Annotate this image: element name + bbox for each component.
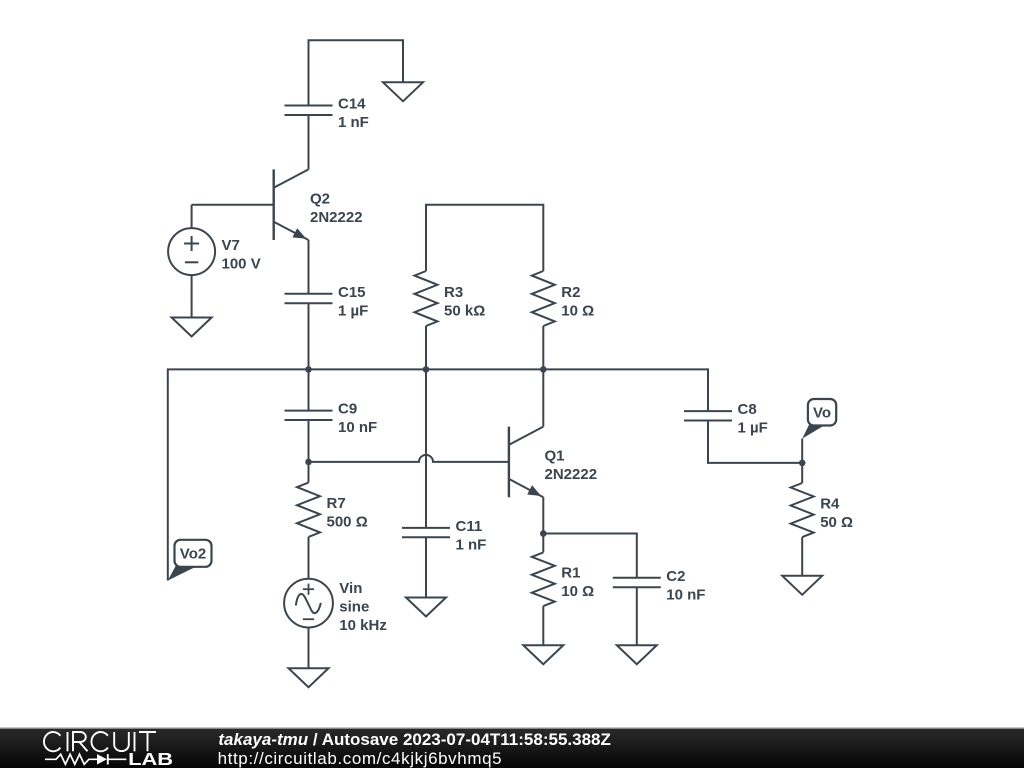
svg-text:10 nF: 10 nF [666,586,705,603]
svg-text:2N2222: 2N2222 [310,209,363,226]
svg-text:C15: C15 [338,284,366,301]
svg-text:C8: C8 [738,401,757,418]
svg-text:10 Ω: 10 Ω [561,583,594,600]
svg-text:10 kHz: 10 kHz [339,617,387,634]
svg-text:takaya-tmu / Autosave 2023-07-: takaya-tmu / Autosave 2023-07-04T11:58:5… [218,730,610,749]
svg-text:1 nF: 1 nF [456,536,487,553]
svg-text:10 nF: 10 nF [338,419,377,436]
svg-text:50 kΩ: 50 kΩ [444,302,485,319]
svg-text:50 Ω: 50 Ω [820,514,853,531]
svg-text:LAB: LAB [128,749,173,768]
svg-text:Q1: Q1 [545,448,565,465]
svg-text:1 nF: 1 nF [338,114,369,131]
svg-text:10 Ω: 10 Ω [561,302,594,319]
svg-text:500 Ω: 500 Ω [327,514,368,531]
svg-text:V7: V7 [222,237,240,254]
svg-text:R1: R1 [561,565,580,582]
svg-text:1 µF: 1 µF [738,420,768,437]
svg-text:C2: C2 [666,568,685,585]
svg-text:C11: C11 [456,518,483,535]
svg-text:sine: sine [339,598,369,615]
svg-text:R2: R2 [561,284,580,301]
svg-text:R3: R3 [444,284,463,301]
svg-text:Vin: Vin [339,580,362,597]
svg-text:R7: R7 [327,495,346,512]
svg-text:Vo: Vo [813,405,831,422]
svg-text:Q2: Q2 [310,190,330,207]
svg-text:http://circuitlab.com/c4kjkj6b: http://circuitlab.com/c4kjkj6bvhmq5 [218,749,503,768]
svg-text:100 V: 100 V [222,255,261,272]
svg-text:C9: C9 [338,401,357,418]
svg-text:Vo2: Vo2 [180,546,206,563]
svg-text:1 µF: 1 µF [338,302,368,319]
svg-text:C14: C14 [338,96,366,113]
svg-text:2N2222: 2N2222 [545,466,598,483]
svg-text:R4: R4 [820,495,840,512]
